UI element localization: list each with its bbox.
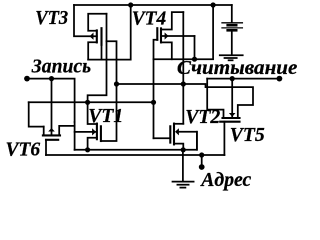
transistor VT4 — [157, 12, 194, 59]
node VT4 substrate junction dot — [192, 57, 197, 62]
wire VT6 gate to address line — [45, 140, 47, 155]
svg-text:VT5: VT5 — [230, 124, 265, 146]
wire ground bus K — [75, 132, 197, 150]
svg-text:VT6: VT6 — [6, 139, 41, 161]
node A dot cross-coupling — [151, 100, 156, 105]
wire address line L — [46, 154, 224, 156]
ground bottom — [173, 182, 194, 188]
svg-text:Адрес: Адрес — [199, 169, 251, 191]
node A dot VT1 drain — [85, 100, 90, 105]
wire VT5 drain from Считывание — [207, 79, 223, 118]
wire VT3 substrate lead from rail — [74, 5, 97, 36]
node Считывание terminal dot — [277, 76, 283, 82]
svg-text:Запись: Запись — [31, 56, 91, 78]
node Адрес terminal dot — [199, 164, 205, 170]
transistor VT6 — [43, 126, 75, 140]
node Считывание junction dot — [230, 76, 235, 81]
wire VT3 gate descent — [101, 45, 103, 60]
svg-text:VT1: VT1 — [88, 105, 123, 127]
wire VT6 substrate descent — [51, 79, 53, 136]
node dot VT1 source — [85, 147, 90, 152]
wire VT3 gate-drain loop descent — [88, 14, 107, 103]
svg-text:VT4: VT4 — [132, 8, 167, 30]
wire Запись line — [27, 79, 75, 122]
wire node A horizontal — [29, 101, 154, 103]
wire top power rail — [74, 4, 232, 6]
wire node B horizontal — [117, 84, 254, 118]
wire VT4 source rail link — [154, 5, 214, 59]
wire Считывание line — [207, 78, 279, 80]
transistor VT1 — [75, 102, 101, 150]
wire VT4 loop descent to VT2 drain — [182, 12, 184, 124]
transistor VT3 — [88, 14, 106, 60]
wire Запись descent lower part — [74, 122, 76, 150]
wire VT2 gate lead — [154, 137, 171, 139]
wire branch to node B — [107, 41, 117, 84]
node address junction dot — [199, 152, 204, 157]
node B dot VT2 drain — [181, 81, 186, 86]
ground battery — [220, 55, 243, 60]
wire VT4 substrate descent — [194, 36, 196, 59]
node top-right junction dot — [211, 2, 216, 7]
svg-text:VT2: VT2 — [185, 106, 220, 128]
node Запись terminal dot — [24, 76, 30, 82]
transistor VT2 — [170, 124, 197, 150]
svg-text:Считывание: Считывание — [177, 57, 298, 79]
svg-text:VT3: VT3 — [35, 7, 68, 29]
wire node A to VT6 drain — [29, 102, 44, 126]
transistor VT5 — [220, 79, 239, 122]
node dot VT2 source ground — [181, 147, 186, 152]
wire node B to VT1 gate — [101, 84, 117, 141]
battery GB — [222, 5, 242, 55]
node top-left junction dot — [128, 2, 133, 7]
wire left load link to rail dot — [88, 5, 131, 60]
wire VT5 gate to address line — [223, 122, 225, 155]
wire ground descent — [182, 150, 184, 182]
wire VT4 gate descent to node A — [154, 40, 158, 138]
wire Адрес stub — [201, 155, 203, 167]
node B dot left — [114, 81, 119, 86]
node Запись junction dot — [49, 76, 54, 81]
